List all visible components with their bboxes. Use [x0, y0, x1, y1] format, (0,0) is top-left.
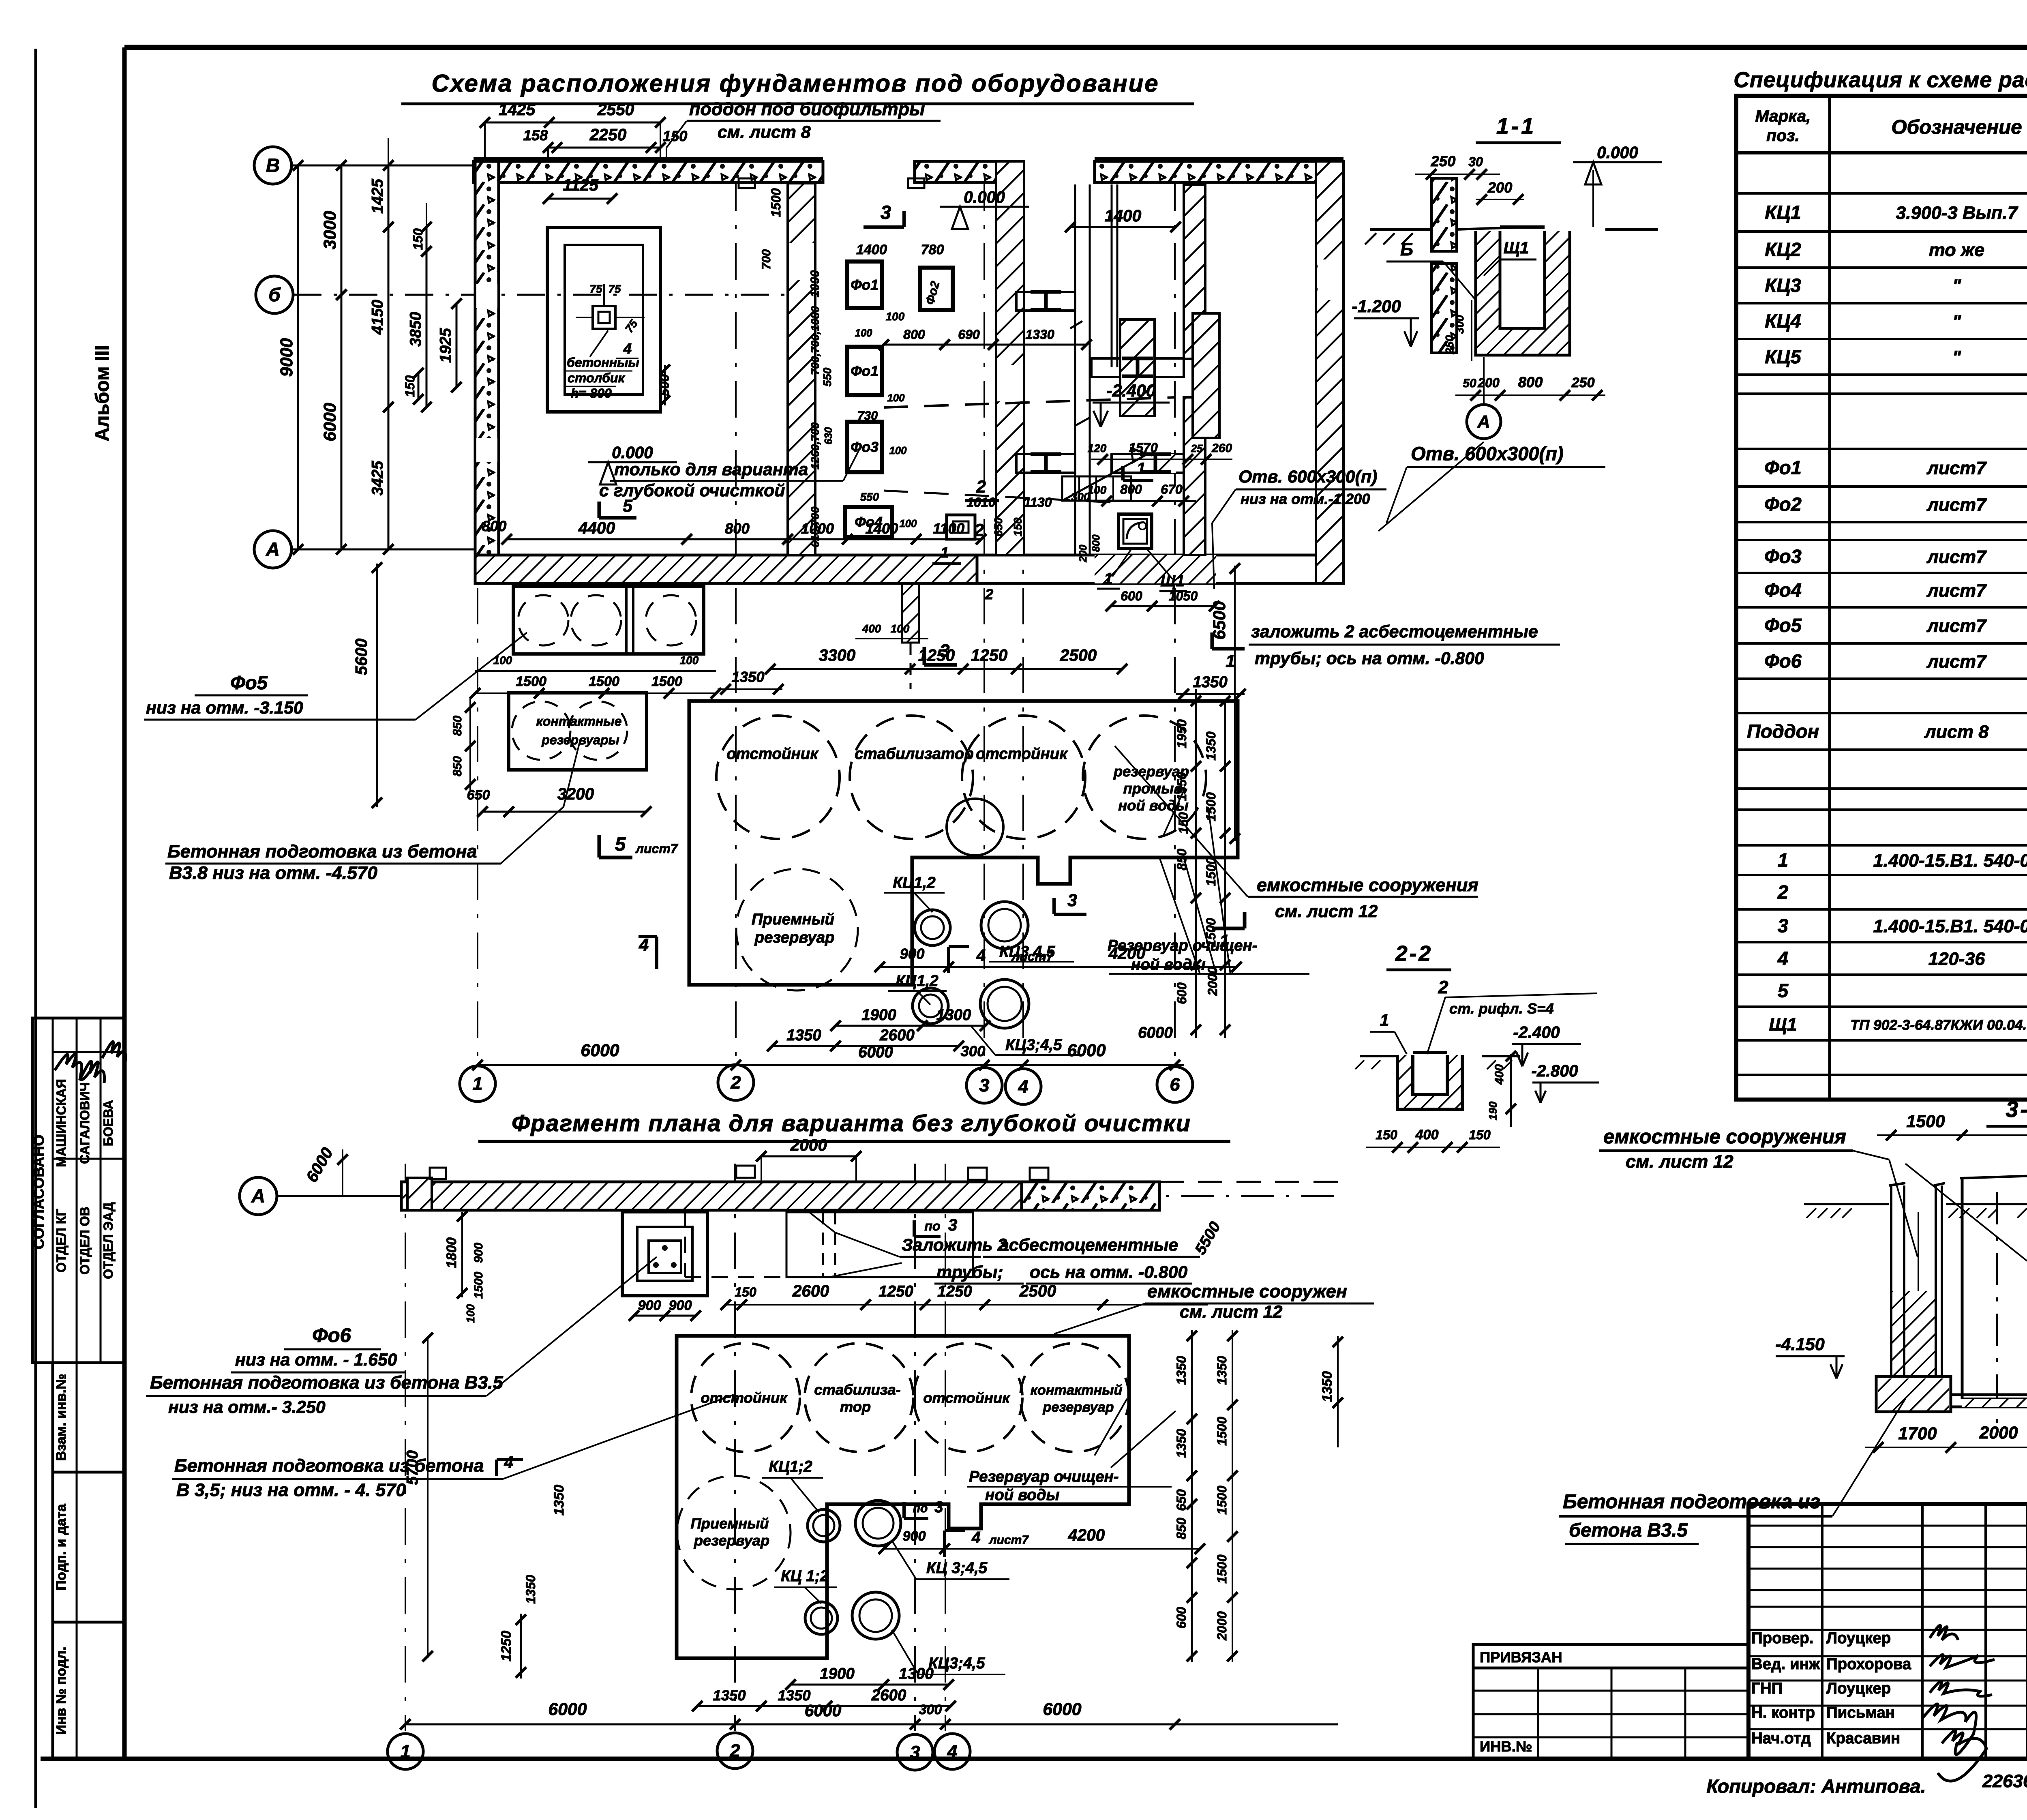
svg-text:1950: 1950 — [1174, 719, 1189, 748]
svg-text:1-1: 1-1 — [1496, 114, 1536, 139]
svg-text:1500: 1500 — [472, 1271, 485, 1299]
bottom plan wall band — [401, 1166, 1338, 1210]
svg-text:1250: 1250 — [918, 646, 955, 665]
svg-text:2600: 2600 — [792, 1282, 829, 1300]
svg-text:400: 400 — [1493, 1064, 1506, 1085]
channel below building + section 3 flag — [855, 584, 957, 689]
svg-text:только для варианта: только для варианта — [614, 460, 808, 479]
svg-text:ПРИВЯЗАН: ПРИВЯЗАН — [1480, 1649, 1562, 1666]
svg-text:200: 200 — [1487, 179, 1513, 196]
svg-text:см. лист 12: см. лист 12 — [1626, 1151, 1733, 1172]
svg-text:0.000: 0.000 — [1597, 143, 1638, 162]
bottom plan bottom dims — [400, 1665, 1338, 1730]
svg-text:трубы; ось на отм. -0.800: трубы; ось на отм. -0.800 — [1255, 649, 1484, 668]
svg-text:Лоуцкер: Лоуцкер — [1826, 1680, 1891, 1697]
svg-text:ГНП: ГНП — [1751, 1680, 1783, 1697]
bottom plan big tank block — [677, 1336, 1129, 1658]
svg-text:250: 250 — [1431, 153, 1456, 169]
svg-text:Схема расположения фундаменто: Схема расположения фундаментов под обору… — [431, 70, 1159, 97]
svg-text:Фо3: Фо3 — [1764, 546, 1802, 567]
svg-text:550: 550 — [821, 367, 834, 386]
svg-text:Н. контр: Н. контр — [1751, 1704, 1815, 1721]
svg-text:1: 1 — [941, 544, 949, 561]
1400 dim — [1065, 206, 1181, 232]
svg-text:1925: 1925 — [437, 328, 454, 363]
svg-text:158: 158 — [523, 127, 548, 144]
svg-text:Приемный: Приемный — [690, 1515, 769, 1532]
svg-text:бетона В3.5: бетона В3.5 — [1569, 1519, 1688, 1541]
svg-text:лист7: лист7 — [1926, 580, 1987, 601]
svg-text:КЦ1: КЦ1 — [1765, 202, 1801, 223]
svg-text:2250: 2250 — [589, 125, 627, 144]
svg-text:-2.400: -2.400 — [1106, 381, 1156, 401]
svg-text:100: 100 — [1088, 484, 1107, 496]
spec title — [1733, 68, 2027, 92]
svg-text:лист7: лист7 — [988, 1533, 1029, 1547]
отв 600х300 label — [1212, 467, 1386, 589]
svg-text:Фо1: Фо1 — [1764, 457, 1802, 478]
svg-text:1300: 1300 — [936, 1006, 971, 1024]
svg-text:Фо2: Фо2 — [1764, 493, 1802, 515]
5600 vertical dim — [352, 562, 382, 808]
svg-text:1: 1 — [1380, 1011, 1389, 1029]
svg-text:6000: 6000 — [548, 1700, 587, 1719]
фо dims small — [760, 187, 1092, 1062]
svg-text:30: 30 — [1468, 154, 1483, 169]
svg-text:1500: 1500 — [1906, 1112, 1945, 1131]
svg-text:МАШИНСКАЯ: МАШИНСКАЯ — [54, 1079, 69, 1167]
svg-text:низ на отм.- 3.250: низ на отм.- 3.250 — [168, 1398, 326, 1417]
svg-text:2: 2 — [730, 1740, 740, 1761]
svg-text:В3.8 низ на отм. -4.570: В3.8 низ на отм. -4.570 — [169, 862, 377, 883]
svg-text:150: 150 — [1469, 1128, 1491, 1142]
svg-text:1050: 1050 — [1169, 589, 1198, 603]
svg-text:780: 780 — [921, 242, 944, 257]
top plan grid bubbles — [254, 147, 791, 568]
svg-text:3000: 3000 — [320, 211, 340, 249]
svg-text:5600: 5600 — [352, 638, 371, 675]
svg-text:Копировал: Антипова.: Копировал: Антипова. — [1706, 1775, 1926, 1797]
svg-text:Провер.: Провер. — [1751, 1629, 1814, 1647]
svg-text:1: 1 — [1226, 652, 1235, 671]
svg-text:1250: 1250 — [499, 1631, 514, 1661]
svg-text:1500: 1500 — [651, 674, 682, 689]
svg-text:150: 150 — [1376, 1128, 1397, 1142]
svg-text:690: 690 — [958, 327, 980, 342]
svg-text:3: 3 — [948, 1215, 958, 1234]
svg-text:Приемный: Приемный — [752, 911, 834, 928]
dashed pit bottom plan — [685, 1210, 973, 1277]
svg-text:120-36: 120-36 — [1928, 948, 1986, 969]
емкостные сооружения label 3-3 — [1599, 1125, 2027, 1261]
svg-text:250: 250 — [1571, 375, 1594, 390]
svg-text:h= 800: h= 800 — [571, 386, 612, 401]
svg-text:1500: 1500 — [1215, 1486, 1229, 1515]
svg-text:4: 4 — [976, 946, 986, 965]
svg-text:тор: тор — [840, 1398, 871, 1415]
svg-text:СОГЛАСОВАНО: СОГЛАСОВАНО — [30, 1134, 47, 1249]
svg-text:Инв № подл.: Инв № подл. — [54, 1646, 69, 1734]
svg-text:100: 100 — [680, 654, 699, 667]
svg-text:6000: 6000 — [1043, 1700, 1081, 1719]
svg-text:2: 2 — [976, 477, 986, 497]
svg-text:6000: 6000 — [1138, 1024, 1173, 1042]
svg-text:1090: 1090 — [808, 270, 822, 297]
svg-text:1500: 1500 — [1204, 792, 1218, 821]
svg-text:Нач.отд: Нач.отд — [1751, 1730, 1811, 1747]
svg-text:2500: 2500 — [1019, 1282, 1056, 1300]
svg-text:лист7: лист7 — [1011, 949, 1054, 964]
svg-text:1125: 1125 — [563, 176, 599, 194]
svg-text:3.900-3 Вып.7: 3.900-3 Вып.7 — [1896, 202, 2018, 223]
section 1-1 title — [1476, 114, 1561, 143]
section mark 4 right + 900 4200 dims — [874, 944, 1242, 973]
svg-text:3: 3 — [979, 1075, 990, 1095]
svg-text:1570: 1570 — [1129, 440, 1158, 455]
svg-text:6000: 6000 — [805, 1701, 842, 1720]
building top wall band — [474, 159, 1343, 188]
svg-text:1: 1 — [1778, 849, 1788, 871]
svg-text:": " — [1952, 347, 1961, 367]
svg-text:3300: 3300 — [819, 646, 856, 665]
bottom plan title — [478, 1110, 1230, 1141]
svg-text:1500: 1500 — [516, 674, 546, 689]
svg-text:100: 100 — [855, 328, 873, 339]
по3 mark top — [914, 1215, 958, 1237]
svg-text:емкостные сооружения: емкостные сооружения — [1257, 875, 1478, 895]
svg-text:4200: 4200 — [1068, 1526, 1105, 1544]
svg-text:3850: 3850 — [407, 312, 424, 347]
svg-text:Красавин: Красавин — [1826, 1730, 1900, 1747]
svg-text:75: 75 — [609, 283, 621, 295]
svg-text:поз.: поз. — [1766, 126, 1800, 145]
только для варианта label — [599, 449, 859, 500]
bottom plan axis bubble A — [240, 1144, 1342, 1215]
svg-text:Отв. 600х300(п): Отв. 600х300(п) — [1411, 443, 1564, 464]
svg-text:резервуар: резервуар — [754, 929, 834, 946]
svg-text:1330: 1330 — [1025, 327, 1054, 342]
svg-text:1300: 1300 — [899, 1665, 934, 1683]
svg-text:100: 100 — [889, 445, 907, 457]
svg-text:отстойник: отстойник — [976, 745, 1068, 763]
section mark 1 bottom — [1212, 912, 1245, 951]
svg-text:400: 400 — [862, 622, 881, 635]
svg-text:емкостные сооружения: емкостные сооружения — [1603, 1125, 1846, 1148]
svg-text:100: 100 — [891, 622, 910, 635]
svg-text:столбик: столбик — [568, 371, 626, 385]
svg-text:100: 100 — [900, 518, 917, 529]
svg-text:": " — [1952, 311, 1961, 332]
svg-text:630: 630 — [823, 427, 834, 445]
svg-text:200: 200 — [1477, 375, 1500, 390]
svg-text:3425: 3425 — [369, 461, 386, 495]
svg-text:900: 900 — [638, 1298, 661, 1313]
building bottom wall band — [475, 555, 1343, 583]
top plan dimension chain above building — [480, 100, 687, 174]
svg-text:4: 4 — [639, 935, 649, 955]
svg-text:120: 120 — [1088, 442, 1107, 454]
svg-text:900: 900 — [472, 1243, 485, 1263]
svg-text:контактный: контактный — [1031, 1383, 1123, 1398]
svg-text:650: 650 — [992, 517, 1005, 536]
емкостные сооружения label top plan — [1115, 746, 1478, 921]
svg-text:отстойник: отстойник — [701, 1389, 788, 1406]
svg-text:2600: 2600 — [871, 1687, 906, 1704]
right vertical dim chains of tank — [1174, 689, 1230, 1038]
svg-text:ст. рифл. S=4: ст. рифл. S=4 — [1449, 1000, 1554, 1017]
svg-text:Отв. 600х300(п): Отв. 600х300(п) — [1238, 467, 1377, 487]
бетонная подготовка label bottom plan — [172, 1395, 734, 1500]
svg-text:700: 700 — [760, 249, 773, 270]
svg-text:550: 550 — [860, 491, 879, 503]
svg-text:800: 800 — [903, 327, 925, 342]
0.000 level marks in plan — [588, 188, 1029, 484]
svg-text:2600: 2600 — [879, 1027, 915, 1044]
svg-text:6000: 6000 — [581, 1041, 619, 1060]
svg-text:1400: 1400 — [856, 242, 887, 257]
svg-text:850: 850 — [1174, 1518, 1189, 1539]
bottom dim row inside building — [482, 517, 1024, 544]
svg-text:-4.150: -4.150 — [1775, 1335, 1825, 1354]
svg-text:1500: 1500 — [1204, 918, 1218, 947]
inner room top-left — [543, 176, 672, 412]
section 1-1 detail — [1352, 143, 1662, 531]
svg-text:1350: 1350 — [523, 1575, 538, 1604]
svg-text:Б: Б — [1400, 239, 1413, 259]
svg-text:200: 200 — [1078, 544, 1089, 563]
svg-text:5700: 5700 — [404, 1450, 421, 1485]
svg-text:Фо1: Фо1 — [851, 363, 879, 379]
фо6 foundation square — [444, 1211, 707, 1323]
svg-text:2: 2 — [1777, 881, 1788, 903]
svg-text:трубы;: трубы; — [936, 1263, 1003, 1282]
bottom plan 2000 dim — [756, 1136, 861, 1182]
svg-text:260: 260 — [1211, 442, 1232, 455]
svg-text:1350: 1350 — [1204, 731, 1218, 761]
svg-text:": " — [1952, 275, 1961, 296]
svg-text:1350: 1350 — [1320, 1371, 1335, 1402]
top plan left dimension chains — [277, 138, 462, 555]
svg-text:КЦ3;4,5: КЦ3;4,5 — [928, 1655, 985, 1672]
svg-text:2550: 2550 — [597, 100, 634, 119]
привязан cells — [1473, 1644, 1748, 1759]
svg-text:по: по — [913, 1502, 928, 1515]
svg-text:см. лист 8: см. лист 8 — [718, 122, 811, 142]
svg-text:650: 650 — [467, 787, 490, 803]
svg-text:КЦ 1;2: КЦ 1;2 — [781, 1567, 829, 1585]
bottom plan left vertical dims — [404, 1333, 567, 1679]
svg-text:б: б — [268, 284, 281, 305]
svg-text:4400: 4400 — [578, 519, 615, 537]
svg-text:лист7: лист7 — [1926, 494, 1987, 515]
svg-text:Лоуцкер: Лоуцкер — [1826, 1629, 1891, 1647]
svg-text:лист7: лист7 — [1926, 615, 1987, 636]
contact reservoirs — [451, 693, 647, 791]
svg-text:1350: 1350 — [1215, 1356, 1229, 1385]
svg-text:резервуары: резервуары — [541, 733, 619, 747]
svg-text:САГАЛОВИЧ: САГАЛОВИЧ — [77, 1082, 92, 1164]
svg-text:Заложить 2: Заложить 2 — [902, 1235, 1007, 1255]
svg-text:Фо4: Фо4 — [1764, 579, 1802, 601]
svg-text:1350: 1350 — [786, 1027, 821, 1044]
building left wall — [475, 161, 499, 576]
svg-text:1350: 1350 — [1174, 1429, 1189, 1458]
svg-text:ТП 902-3-64.87КЖИ 00.04.00.00: ТП 902-3-64.87КЖИ 00.04.00.00 — [1850, 1017, 2027, 1033]
svg-text:-1.200: -1.200 — [1352, 297, 1401, 316]
svg-text:емкостные сооружен: емкостные сооружен — [1147, 1281, 1347, 1301]
svg-text:150: 150 — [411, 228, 425, 250]
svg-text:75: 75 — [590, 283, 602, 295]
svg-text:лист7: лист7 — [1926, 458, 1987, 478]
dim chain above big tank — [718, 646, 1246, 699]
svg-text:5: 5 — [615, 833, 626, 855]
svg-text:1260,700: 1260,700 — [809, 422, 821, 469]
svg-text:В 3,5; низ на отм. - 4. 570: В 3,5; низ на отм. - 4. 570 — [176, 1479, 406, 1500]
main title — [401, 70, 1194, 104]
svg-text:лист7: лист7 — [635, 841, 679, 856]
svg-text:1.400-15.В1. 540-01: 1.400-15.В1. 540-01 — [1873, 916, 2027, 937]
svg-text:Бетонная подготовка из бетона: Бетонная подготовка из бетона В3.5 — [150, 1372, 504, 1393]
svg-text:4: 4 — [504, 1453, 514, 1471]
top plan bubbles bottom row — [460, 1065, 1193, 1104]
bottom plan right dim chains — [1174, 1218, 1343, 1662]
svg-text:4: 4 — [623, 340, 632, 357]
specification table — [1736, 96, 2027, 1100]
svg-text:100: 100 — [886, 310, 905, 323]
svg-text:1425: 1425 — [369, 179, 386, 214]
svg-text:-2.800: -2.800 — [1531, 1061, 1578, 1080]
фо5 label — [144, 632, 527, 720]
svg-text:поддон под биофильтры: поддон под биофильтры — [689, 99, 925, 119]
bottom plan axis lines vertical — [405, 1164, 945, 1731]
svg-text:стабилиза-: стабилиза- — [814, 1381, 900, 1398]
svg-text:25: 25 — [1191, 443, 1203, 454]
svg-text:1250: 1250 — [971, 646, 1008, 665]
svg-text:9000: 9000 — [277, 338, 296, 377]
копировал line — [1706, 1771, 2027, 1797]
svg-text:700,700,1080: 700,700,1080 — [809, 306, 821, 375]
svg-text:КЦ1,2: КЦ1,2 — [893, 874, 936, 892]
svg-text:-2.400: -2.400 — [1513, 1023, 1560, 1042]
svg-text:1.400-15.В1. 540-09: 1.400-15.В1. 540-09 — [1873, 850, 2027, 871]
svg-text:КЦ3: КЦ3 — [1765, 274, 1801, 296]
бетонная подготовка label top plan — [165, 742, 580, 883]
svg-text:190: 190 — [1487, 1101, 1499, 1120]
svg-text:22636-02: 22636-02 — [1982, 1771, 2027, 1791]
svg-text:3: 3 — [881, 202, 891, 223]
svg-text:4: 4 — [1018, 1076, 1028, 1097]
по3 mark mid + 900 4200 dims bottom — [879, 1498, 1205, 1557]
svg-text:1900: 1900 — [820, 1665, 855, 1683]
svg-text:3200: 3200 — [557, 785, 594, 803]
svg-text:по: по — [924, 1219, 940, 1233]
svg-text:В: В — [266, 154, 280, 176]
svg-text:ОТДЕЛ ОВ: ОТДЕЛ ОВ — [77, 1207, 92, 1275]
svg-text:2-2: 2-2 — [1395, 942, 1433, 966]
section mark 5 лист7 — [599, 833, 679, 857]
svg-text:КЦ3;4,5: КЦ3;4,5 — [1005, 1036, 1062, 1054]
svg-text:1000: 1000 — [801, 520, 834, 537]
svg-text:КЦ4: КЦ4 — [1765, 310, 1801, 332]
фо6 labels — [146, 1257, 657, 1417]
svg-text:1800: 1800 — [444, 1237, 459, 1268]
svg-text:600: 600 — [1121, 589, 1142, 603]
svg-text:лист 8: лист 8 — [1924, 721, 1989, 742]
svg-text:850: 850 — [451, 756, 464, 776]
svg-text:Марка,: Марка, — [1755, 107, 1811, 125]
svg-text:1700: 1700 — [1898, 1424, 1937, 1443]
svg-text:3: 3 — [1778, 915, 1788, 937]
section mark 3 mid — [1054, 891, 1086, 914]
svg-text:0.000: 0.000 — [964, 188, 1005, 206]
svg-text:400: 400 — [1415, 1127, 1438, 1143]
svg-text:отстойник: отстойник — [726, 745, 819, 763]
svg-text:Взам. инв.№: Взам. инв.№ — [54, 1374, 69, 1461]
right rooms vertical wall — [1193, 313, 1219, 438]
фо foundations column — [845, 262, 953, 537]
svg-text:1350: 1350 — [551, 1485, 567, 1516]
svg-text:Фо5: Фо5 — [230, 672, 268, 693]
svg-text:ОТДЕЛ КГ: ОТДЕЛ КГ — [54, 1209, 69, 1272]
svg-text:резервуар: резервуар — [694, 1532, 769, 1549]
650 3200 dims — [467, 785, 651, 817]
svg-text:850: 850 — [451, 716, 464, 736]
svg-text:ОТДЕЛ ЭАД: ОТДЕЛ ЭАД — [101, 1202, 116, 1279]
svg-text:1400: 1400 — [1105, 206, 1142, 225]
svg-text:900: 900 — [900, 945, 925, 962]
svg-text:Фо6: Фо6 — [312, 1324, 351, 1346]
svg-text:1: 1 — [1137, 460, 1145, 477]
svg-text:ИНВ.№: ИНВ.№ — [1480, 1738, 1532, 1755]
svg-text:отстойник: отстойник — [923, 1389, 1010, 1406]
section 3-3 title — [1986, 1097, 2027, 1126]
svg-text:2: 2 — [731, 1072, 741, 1093]
svg-text:6000: 6000 — [320, 403, 340, 441]
svg-text:Вед. инж: Вед. инж — [1751, 1655, 1820, 1673]
svg-text:0.000: 0.000 — [612, 443, 653, 462]
dims below tank block — [472, 1006, 1184, 1070]
svg-text:6000: 6000 — [1067, 1041, 1106, 1060]
svg-text:600: 600 — [1174, 982, 1189, 1004]
svg-text:150: 150 — [403, 375, 417, 397]
I-beam column symbols — [1031, 292, 1061, 310]
svg-text:4150: 4150 — [369, 300, 386, 335]
svg-text:100: 100 — [887, 392, 905, 404]
svg-text:Фо3: Фо3 — [851, 439, 879, 455]
svg-text:бетонныы: бетонныы — [567, 355, 639, 370]
емкостные сооружения label bottom plan — [1054, 1281, 1374, 1334]
svg-text:3: 3 — [1067, 891, 1077, 910]
резервуар очищенной label bottom — [967, 1399, 1176, 1504]
svg-text:900: 900 — [902, 1528, 926, 1544]
svg-text:1500: 1500 — [589, 674, 619, 689]
заложить трубы label top — [1249, 622, 1560, 668]
left approval stamp column — [30, 1018, 126, 1759]
svg-text:2500: 2500 — [1060, 646, 1097, 665]
top plan axis lines vertical — [478, 174, 1175, 1065]
svg-text:Фо6: Фо6 — [1764, 650, 1802, 672]
dim rows under pallet — [470, 654, 721, 699]
svg-text:КЦ5: КЦ5 — [1765, 346, 1801, 367]
svg-text:контактные: контактные — [536, 714, 622, 729]
svg-text:А: А — [251, 1185, 265, 1207]
svg-text:Прохорова: Прохорова — [1826, 1655, 1911, 1673]
svg-text:4: 4 — [1777, 948, 1788, 969]
svg-text:1: 1 — [1219, 931, 1229, 951]
svg-text:Щ1: Щ1 — [1504, 238, 1529, 257]
svg-text:100: 100 — [464, 1304, 477, 1323]
svg-text:А: А — [266, 538, 280, 560]
